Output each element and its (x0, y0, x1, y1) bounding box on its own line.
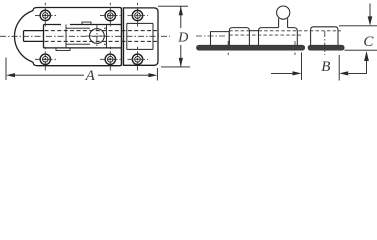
svg-text:C: C (363, 34, 374, 50)
svg-text:A: A (85, 68, 96, 84)
svg-text:B: B (321, 59, 330, 75)
svg-text:D: D (177, 30, 188, 45)
